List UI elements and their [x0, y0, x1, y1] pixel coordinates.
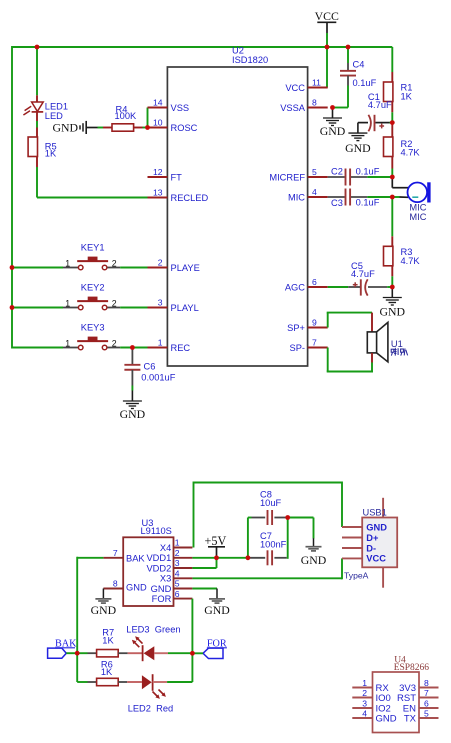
svg-text:11: 11 — [312, 77, 321, 87]
svg-text:2: 2 — [362, 688, 367, 698]
svg-text:VCC: VCC — [285, 83, 305, 93]
svg-text:3: 3 — [362, 699, 367, 709]
svg-text:VCC: VCC — [366, 554, 386, 564]
svg-text:1K: 1K — [45, 148, 57, 158]
svg-text:8: 8 — [113, 578, 118, 588]
svg-text:8: 8 — [312, 97, 317, 107]
svg-text:L9110S: L9110S — [141, 526, 172, 536]
svg-text:GND: GND — [204, 603, 230, 617]
svg-text:VDD1: VDD1 — [146, 553, 171, 563]
svg-text:1K: 1K — [102, 636, 114, 646]
svg-text:SP-: SP- — [290, 343, 306, 353]
svg-text:4: 4 — [175, 569, 180, 579]
svg-text:GND: GND — [52, 120, 78, 134]
svg-text:ROSC: ROSC — [171, 123, 198, 133]
svg-text:1: 1 — [158, 337, 163, 347]
svg-text:7: 7 — [312, 337, 317, 347]
svg-text:1K: 1K — [401, 92, 413, 102]
svg-text:VSSA: VSSA — [280, 103, 306, 113]
svg-text:X4: X4 — [160, 543, 171, 553]
svg-text:+5V: +5V — [205, 534, 227, 548]
svg-text:1: 1 — [65, 339, 70, 349]
svg-text:1: 1 — [65, 259, 70, 269]
svg-text:5: 5 — [424, 709, 429, 719]
svg-text:GND: GND — [376, 714, 397, 725]
svg-text:2: 2 — [175, 548, 180, 558]
svg-text:PLAYL: PLAYL — [171, 303, 199, 313]
svg-text:4.7uF: 4.7uF — [351, 269, 375, 279]
svg-text:0.001uF: 0.001uF — [141, 373, 175, 383]
svg-text:GND: GND — [320, 124, 346, 138]
svg-text:4.7uF: 4.7uF — [368, 100, 392, 110]
svg-text:1: 1 — [362, 678, 367, 688]
svg-text:VSS: VSS — [171, 103, 190, 113]
svg-text:4.7K: 4.7K — [401, 148, 421, 158]
svg-text:RST: RST — [397, 693, 416, 704]
svg-text:GND: GND — [301, 553, 327, 567]
svg-text:MICREF: MICREF — [269, 172, 305, 182]
svg-text:2: 2 — [158, 257, 163, 267]
svg-text:7: 7 — [424, 688, 429, 698]
svg-text:MIC: MIC — [409, 212, 426, 222]
svg-text:PLAYE: PLAYE — [171, 263, 200, 273]
svg-text:0.1uF: 0.1uF — [356, 198, 380, 208]
svg-text:FOR: FOR — [152, 594, 172, 604]
svg-text:2: 2 — [112, 259, 117, 269]
svg-text:LED2 Red: LED2 Red — [128, 704, 173, 714]
svg-text:AGC: AGC — [285, 282, 305, 292]
svg-text:C6: C6 — [144, 361, 156, 371]
svg-text:VDD2: VDD2 — [146, 563, 171, 573]
svg-text:REC: REC — [171, 343, 191, 353]
svg-text:GND: GND — [151, 584, 172, 594]
svg-text:3: 3 — [175, 558, 180, 568]
svg-text:GND: GND — [120, 407, 146, 421]
svg-text:0.1uF: 0.1uF — [353, 78, 377, 88]
svg-text:USB1: USB1 — [363, 507, 387, 517]
svg-text:4: 4 — [312, 187, 317, 197]
svg-text:1K: 1K — [101, 667, 113, 677]
svg-text:LED: LED — [45, 111, 63, 121]
svg-text:4: 4 — [362, 709, 367, 719]
svg-text:KEY1: KEY1 — [81, 243, 105, 253]
svg-text:C4: C4 — [353, 60, 365, 70]
svg-text:D+: D+ — [366, 533, 379, 543]
svg-text:ISD1820: ISD1820 — [232, 55, 268, 65]
svg-text:5: 5 — [312, 167, 317, 177]
svg-text:GND: GND — [126, 583, 147, 593]
svg-text:U2: U2 — [232, 46, 244, 56]
svg-text:FT: FT — [171, 172, 183, 182]
svg-text:2: 2 — [112, 299, 117, 309]
svg-text:10: 10 — [153, 117, 163, 127]
svg-text:C3: C3 — [331, 198, 343, 208]
svg-text:0.1uF: 0.1uF — [356, 167, 380, 177]
svg-text:6: 6 — [424, 699, 429, 709]
svg-text:IO0: IO0 — [376, 693, 391, 704]
svg-text:14: 14 — [153, 97, 163, 107]
svg-text:D-: D- — [366, 543, 376, 553]
svg-text:GND: GND — [91, 603, 117, 617]
svg-text:5: 5 — [175, 579, 180, 589]
svg-text:7: 7 — [113, 548, 118, 558]
svg-text:1: 1 — [175, 538, 180, 548]
svg-text:3: 3 — [158, 297, 163, 307]
svg-text:GND: GND — [366, 522, 387, 532]
svg-text:GND: GND — [380, 305, 406, 319]
svg-text:9: 9 — [312, 317, 317, 327]
svg-text:1: 1 — [65, 299, 70, 309]
svg-text:4.7K: 4.7K — [401, 256, 421, 266]
svg-text:12: 12 — [153, 167, 163, 177]
svg-text:6: 6 — [312, 277, 317, 287]
svg-text:BAK: BAK — [126, 553, 145, 563]
svg-text:6: 6 — [175, 589, 180, 599]
svg-text:2: 2 — [112, 339, 117, 349]
svg-text:ESP8266: ESP8266 — [394, 663, 430, 673]
svg-text:VCC: VCC — [315, 9, 339, 23]
svg-text:10uF: 10uF — [260, 498, 282, 508]
svg-text:100nF: 100nF — [260, 540, 287, 550]
svg-text:U1: U1 — [391, 339, 403, 349]
svg-text:RECLED: RECLED — [171, 193, 209, 203]
svg-text:8: 8 — [424, 678, 429, 688]
svg-text:MIC: MIC — [288, 192, 305, 202]
svg-text:TypeA: TypeA — [344, 571, 369, 581]
svg-text:SP+: SP+ — [287, 323, 305, 333]
svg-text:KEY2: KEY2 — [81, 283, 105, 293]
svg-text:13: 13 — [153, 187, 163, 197]
svg-text:TX: TX — [404, 714, 417, 725]
svg-text:LED3 Green: LED3 Green — [126, 624, 180, 634]
svg-text:X3: X3 — [160, 574, 171, 584]
svg-text:KEY3: KEY3 — [81, 323, 105, 333]
svg-text:GND: GND — [345, 141, 371, 155]
svg-text:100K: 100K — [115, 111, 138, 121]
svg-text:C2: C2 — [331, 166, 343, 176]
